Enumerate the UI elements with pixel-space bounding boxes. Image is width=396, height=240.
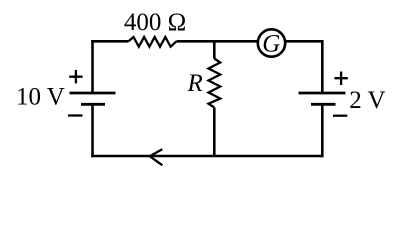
battery B2 long plate (+) bbox=[299, 92, 346, 95]
wire top middle (resistor to galvanometer) bbox=[177, 40, 258, 43]
minus sign left battery bbox=[68, 114, 83, 116]
wire middle branch top bbox=[213, 41, 216, 58]
galvanometer G circle bbox=[258, 29, 285, 56]
svg-text:G: G bbox=[262, 31, 280, 58]
wire top right (galvanometer to corner) bbox=[286, 40, 322, 43]
wire right vertical lower bbox=[321, 104, 324, 157]
wire right vertical upper bbox=[321, 40, 324, 93]
battery B2 short plate (-) bbox=[311, 103, 336, 106]
current arrow on bottom wire bbox=[150, 149, 163, 165]
svg-text:10 V: 10 V bbox=[16, 84, 65, 111]
svg-text:2 V: 2 V bbox=[349, 87, 385, 114]
wire top-left horizontal bbox=[91, 40, 128, 43]
plus sign left battery bbox=[69, 70, 82, 83]
wire left vertical upper bbox=[91, 40, 94, 93]
resistor 400 ohm zigzag bbox=[129, 37, 177, 47]
resistor R zigzag bbox=[209, 59, 221, 108]
wire left vertical lower bbox=[91, 104, 94, 157]
svg-text:400 Ω: 400 Ω bbox=[124, 9, 186, 36]
minus sign right battery bbox=[333, 115, 347, 117]
wire bottom horizontal bbox=[91, 155, 322, 158]
battery B1 long plate (+) bbox=[70, 92, 116, 95]
battery B1 short plate (-) bbox=[81, 103, 105, 106]
plus sign right battery bbox=[334, 72, 347, 86]
svg-text:R: R bbox=[187, 70, 203, 97]
wire middle branch bottom bbox=[213, 108, 216, 157]
